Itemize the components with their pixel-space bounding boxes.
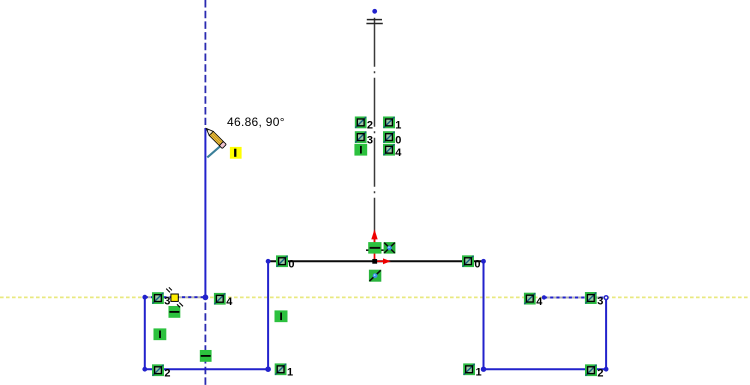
- svg-text:3: 3: [597, 295, 603, 307]
- line-tool cursor: pencil: [204, 126, 226, 148]
- middle shape left vertical line: [267, 261, 269, 369]
- mirrored segment L5', right (gray under-line): [544, 297, 606, 299]
- coincident (diagonal-with-point) relation badge below origin: [369, 270, 381, 282]
- left shape bottom line: [145, 368, 268, 370]
- point: mirrored segment left end: [542, 295, 546, 299]
- vertical inference line above cursor (blue dashed): [204, 0, 206, 125]
- relation badge "2" (left of centerline): [355, 116, 367, 128]
- svg-text:3: 3: [164, 295, 170, 307]
- relation badge "3" right shape top: [585, 292, 597, 304]
- relation badge "0" on top line left end: [276, 255, 288, 267]
- relation badge "0" on top line right end: [462, 255, 474, 267]
- dynamic mirror hash mark upper: [367, 19, 382, 21]
- point: right shape bottom-right: [604, 367, 609, 372]
- dynamic mirror hash mark lower: [366, 23, 382, 25]
- right shape vertical line: [605, 298, 607, 370]
- svg-text:4: 4: [395, 147, 402, 159]
- top line of middle shape (black, fully defined): [268, 260, 483, 262]
- coincident snap indicator (yellow square with sparkles): [166, 287, 183, 307]
- horizontal inference line (yellow dashed): [0, 296, 750, 298]
- vertical relation badge (left of centerline): [354, 144, 367, 156]
- relation badge "1" middle-left bottom: [275, 363, 287, 375]
- point: left shape bottom-left: [142, 367, 147, 372]
- svg-text:2: 2: [597, 368, 603, 380]
- origin X axis red arrow: [375, 258, 391, 264]
- horizontal relation badge under segment L5: [168, 306, 180, 318]
- preview line being drawn (solid blue, x=205): [204, 128, 206, 297]
- left shape vertical line: [144, 297, 146, 369]
- svg-text:4: 4: [536, 296, 543, 308]
- svg-text:1: 1: [395, 120, 401, 132]
- svg-text:0: 0: [288, 259, 294, 271]
- middle shape right vertical line: [483, 261, 485, 369]
- svg-text:1: 1: [287, 367, 293, 379]
- svg-text:46.86, 90°: 46.86, 90°: [227, 115, 285, 129]
- centerline (mirror line): [374, 18, 376, 261]
- relation badge "1" (right of centerline): [383, 116, 395, 128]
- point: left shape top-left: [142, 295, 147, 300]
- relation badge "4" left shape (right of preview start): [214, 293, 226, 305]
- svg-text:4: 4: [226, 296, 233, 308]
- svg-text:2: 2: [164, 368, 170, 380]
- relation badge "2" left shape bottom-left: [152, 364, 164, 376]
- origin point (black): [372, 259, 377, 264]
- point: middle/right shared bottom corner: [481, 367, 486, 372]
- svg-text:0: 0: [474, 259, 480, 271]
- relation badge "2" right shape bottom: [585, 364, 597, 376]
- line segment L5 being placed, left (blue dashes): [145, 296, 206, 298]
- X-with-point relation badge at origin: [384, 242, 396, 254]
- relation badge "3" left shape top-left: [152, 292, 164, 304]
- horizontal-bar relation badge at origin: [366, 242, 384, 254]
- vertical inference line below start point (blue dashed): [204, 303, 206, 385]
- point: top line right end: [481, 259, 486, 264]
- point: right shape top-right (open): [604, 296, 608, 300]
- relation badge "3" (left of centerline): [355, 131, 367, 143]
- line-tool cursor: teal segment: [207, 146, 220, 157]
- relation badge "4" (right of centerline): [383, 144, 395, 156]
- relation badge "1" middle-right bottom: [463, 363, 475, 375]
- origin Y axis red arrow: [371, 229, 377, 261]
- relation badge "4" right shape top: [524, 293, 536, 305]
- point: start of preview line (big blue dot): [203, 294, 209, 300]
- horizontal relation badge on left shape bottom: [200, 350, 212, 362]
- vertical relation badge on middle-left line: [275, 310, 288, 322]
- line segment L5 being placed, left (gray under-line): [145, 296, 206, 298]
- vertical relation badge on left shape vertical: [153, 328, 166, 340]
- point: top line left end: [266, 259, 271, 264]
- svg-text:3: 3: [367, 134, 373, 146]
- point: left/middle shared bottom corner: [265, 366, 271, 372]
- svg-text:0: 0: [395, 134, 401, 146]
- relation badge "0" (right of centerline): [383, 131, 395, 143]
- vertical relation preview box (yellow with bar): [230, 147, 242, 159]
- right shape bottom line: [484, 368, 607, 370]
- svg-text:1: 1: [476, 367, 482, 379]
- mirrored segment L5', right (blue dashes): [544, 297, 606, 299]
- endpoint of centerline (blue point): [372, 9, 377, 14]
- svg-text:2: 2: [367, 120, 373, 132]
